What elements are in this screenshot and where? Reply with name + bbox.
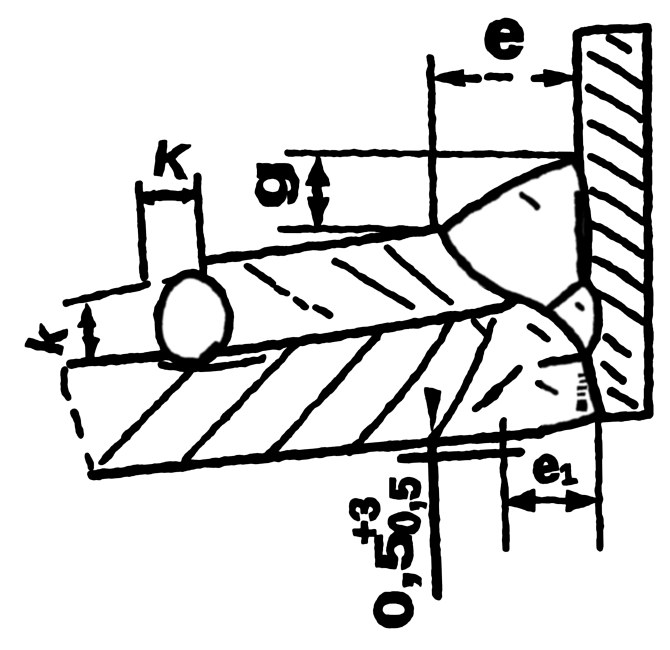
lower bead wall edge [585, 356, 599, 412]
gap dimension down arrow [424, 388, 439, 430]
dimension k top extension [65, 284, 147, 302]
weld face top curve [442, 159, 574, 229]
dimension K extension lines [138, 183, 143, 277]
bead separation stroke [541, 356, 584, 363]
svg-text:e: e [483, 0, 523, 70]
wall edge overdrawn through weld [577, 193, 581, 280]
dimension g arrows [306, 155, 328, 228]
label g (rotated) [239, 159, 297, 208]
dimension g bottom extension [280, 228, 440, 229]
label 0,5 +3 -0,5 (rotated) [341, 476, 427, 629]
wall top edge [576, 27, 646, 33]
dimension e extension line [430, 57, 433, 227]
lower plate hatching [101, 317, 519, 461]
middle bead white fill [549, 280, 598, 356]
dimension e1 extension lines [502, 420, 505, 548]
dimension g top extension [287, 152, 575, 154]
wall hatching [589, 37, 643, 404]
upper plate top edge [203, 228, 437, 260]
wall plate (right vertical plate) [576, 27, 648, 417]
label e [483, 0, 523, 70]
bead under-arc [160, 358, 262, 367]
weld right bulge [574, 159, 587, 283]
wall bottom edge [600, 414, 648, 417]
wall left edge upper [576, 33, 584, 306]
upper plate left edge [199, 259, 206, 281]
svg-text:-0,5: -0,5 [380, 476, 427, 548]
wall right edge [646, 27, 648, 414]
weld underside curve / descending boundary [442, 231, 585, 356]
small dot in bead [577, 304, 581, 307]
label 1max (tiny marks, rotated) [576, 372, 586, 410]
dimension e1 arrows [503, 490, 533, 510]
upper weld flare (white fill over wall edge) [442, 159, 587, 307]
lower plate left break edge [63, 369, 90, 466]
bottom edge double stroke B [400, 451, 520, 458]
dimension e arrows [433, 69, 574, 85]
dimension K bar with arrows [140, 194, 194, 198]
seam line (plate interface) [70, 298, 515, 363]
middle bead right side [584, 283, 598, 356]
lower bead white fill [541, 356, 599, 425]
bottom weld curve to wall corner [540, 411, 599, 430]
upper plate face dashes [246, 194, 554, 392]
gap dimension leader line [431, 446, 436, 594]
beak stroke [549, 280, 584, 307]
centerline dashes [120, 279, 176, 288]
lower plate bottom edge [92, 432, 540, 474]
svg-text:g: g [239, 159, 297, 208]
left end weld bead (oval) [158, 273, 229, 361]
dimension k arrows [79, 303, 94, 325]
